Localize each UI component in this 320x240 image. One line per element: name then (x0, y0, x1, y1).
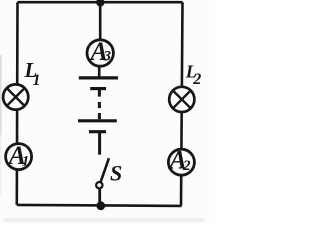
node top junction (96, 0, 104, 7)
node bottom junction (96, 201, 105, 210)
wire battery to switch (98, 132, 101, 155)
svg-text:1: 1 (33, 72, 41, 89)
wire top (18, 1, 183, 4)
battery dashed link (98, 102, 101, 108)
lamp L1 (3, 84, 28, 109)
battery cell1 stem (98, 89, 101, 97)
svg-text:2: 2 (182, 158, 191, 174)
battery cell1 short plate (90, 87, 106, 90)
lamp L2 (169, 87, 194, 112)
svg-text:1: 1 (22, 154, 30, 170)
svg-text:2: 2 (192, 71, 201, 88)
wire middle top (99, 2, 102, 40)
ammeter A2 (168, 149, 194, 175)
battery cell1 long plate (79, 76, 118, 79)
svg-text:S: S (110, 161, 122, 186)
wire switch to bottom (98, 189, 101, 203)
switch S pivot circle (96, 182, 102, 188)
scan artifact: faint bottom noise band (4, 218, 204, 222)
switch S blade (101, 158, 109, 182)
wire bottom (17, 205, 182, 206)
wire right (181, 2, 183, 206)
battery cell2 short plate (89, 130, 106, 133)
ammeter A3 (87, 40, 113, 66)
wire A3 to battery (98, 66, 101, 78)
battery cell2 long plate (78, 119, 117, 122)
wire left (15, 2, 18, 205)
svg-text:3: 3 (103, 49, 112, 65)
ammeter A1 (6, 144, 32, 170)
scan artifact: faint left edge streak (0, 55, 2, 135)
